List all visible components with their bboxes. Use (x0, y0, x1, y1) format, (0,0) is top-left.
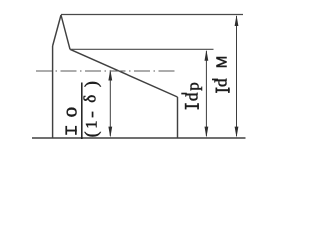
dimension line IdM (236, 16, 238, 136)
svg-text:(: ( (81, 131, 101, 137)
arrowhead up at peak level (IdM dim) (235, 15, 239, 26)
label denominator dash (92, 112, 94, 118)
dimension line Io/(1-delta) (109, 72, 111, 136)
svg-text:1: 1 (84, 121, 101, 129)
label IdM : letter d (212, 79, 218, 81)
centerline dash-dot mean level (36, 70, 176, 72)
svg-text:d: d (182, 92, 201, 101)
label Idp : letter I (custom serif glyph) (185, 103, 199, 109)
label IdM : letter I (custom serif glyph) (216, 88, 230, 93)
svg-text:o: o (57, 107, 81, 118)
svg-text:M: M (213, 56, 230, 69)
dimension line Idp (205, 51, 207, 136)
wire: waveform decay slope (70, 49, 178, 97)
arrowhead down at baseline (Idp dim) (205, 127, 209, 138)
wire: waveform rising edge vertical (52, 46, 54, 138)
svg-text:): ) (81, 81, 101, 87)
arrowhead down at baseline (IdM dim) (235, 127, 239, 138)
wire: waveform steep drop peak to knee (61, 15, 70, 49)
extension line top (peak level IdM) (61, 14, 243, 16)
fraction bar of Io/(1-delta) label (81, 83, 83, 140)
svg-text:d: d (212, 78, 231, 87)
arrowhead down at baseline (Io dim) (108, 127, 112, 138)
label numerator Io : letter I (custom serif glyph) (65, 126, 76, 135)
arrowhead up at centerline (108, 70, 112, 81)
extension line middle (knee level Idp) (70, 48, 214, 50)
svg-text:δ: δ (81, 95, 100, 103)
wire: waveform rising edge slant to peak (53, 15, 61, 46)
label Idp : letter d (181, 93, 187, 95)
wire: waveform falling right edge (177, 97, 179, 138)
arrowhead up at knee level (Idp dim) (205, 50, 209, 61)
time axis baseline (32, 137, 246, 139)
svg-text:p: p (184, 82, 203, 91)
